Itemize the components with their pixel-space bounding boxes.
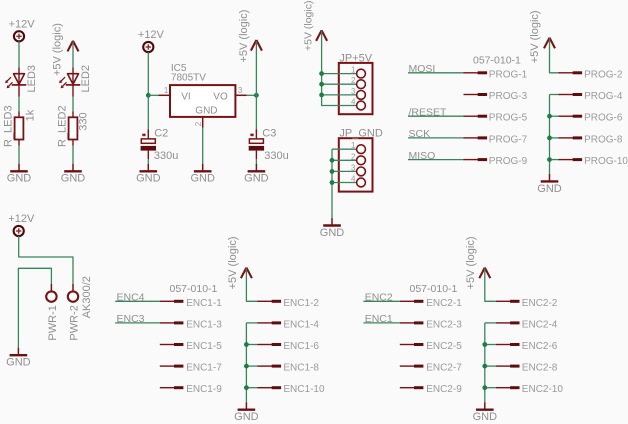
+12V supply symbol P+12V-1 — [9, 18, 36, 41]
ground GND4 — [190, 164, 215, 185]
pin PROG-8 — [559, 137, 583, 139]
wire — [363, 322, 399, 324]
svg-text:PROG-3: PROG-3 — [489, 91, 528, 102]
svg-text:PROG-2: PROG-2 — [584, 69, 623, 80]
ground GND3 — [136, 164, 161, 185]
wire — [332, 182, 357, 184]
pin PROG-7 — [464, 137, 488, 139]
wire — [72, 42, 74, 68]
resistor R_LED2 — [69, 117, 78, 139]
+12V supply symbol P+12V-2 — [138, 29, 165, 52]
pin PWR-1 top — [50, 284, 52, 292]
junction JP+5V pin 1 — [319, 71, 324, 76]
svg-text:+5V (logic): +5V (logic) — [529, 10, 541, 63]
svg-text:+5V (logic): +5V (logic) — [465, 237, 477, 290]
svg-text:JP_GND: JP_GND — [339, 127, 382, 139]
svg-text:GND: GND — [244, 173, 269, 185]
junction PROG gnd bus — [547, 157, 552, 162]
pin ENC1-9 — [160, 387, 184, 389]
+5V supply arrow P+5V ENC1 — [241, 268, 252, 279]
junction ENC2 gnd bus — [482, 342, 487, 347]
svg-text:3: 3 — [238, 86, 243, 95]
pin 4 JP_GND — [357, 178, 366, 187]
wire — [408, 137, 464, 139]
+5V supply arrow P+5V-3 — [316, 30, 327, 41]
svg-text:ENC1-4: ENC1-4 — [283, 319, 319, 330]
junction ENC1 gnd bus — [244, 385, 249, 390]
pin ENC2-2 — [496, 300, 520, 302]
svg-text:PROG-9: PROG-9 — [489, 156, 528, 167]
pin 3 JP_GND — [357, 167, 366, 176]
wire — [246, 268, 257, 301]
pin ENC2-10 — [496, 387, 520, 389]
pin PROG-6 — [559, 115, 583, 117]
wire — [332, 170, 357, 172]
junction JP_GND pin 3 — [330, 169, 335, 174]
pin R_LED3 top — [18, 112, 20, 118]
pin 2 IC5 — [202, 117, 204, 128]
svg-text:LED3: LED3 — [26, 65, 38, 93]
svg-text:GND: GND — [190, 173, 215, 185]
pin LED3 anode — [18, 68, 20, 75]
svg-text:AK300/2: AK300/2 — [81, 276, 93, 318]
svg-text:2: 2 — [194, 121, 203, 126]
svg-text:C3: C3 — [262, 127, 276, 139]
wire — [485, 365, 496, 367]
svg-text:ENC2-9: ENC2-9 — [426, 384, 462, 395]
svg-text:+5V (logic): +5V (logic) — [227, 237, 239, 290]
pin R_LED2 top — [72, 112, 74, 118]
svg-text:R_LED2: R_LED2 — [56, 105, 68, 147]
pin ENC1-5 — [160, 344, 184, 346]
pin ENC2-9 — [400, 387, 424, 389]
wire — [550, 115, 559, 117]
wire — [148, 94, 158, 96]
wire — [332, 148, 357, 150]
capacitor C3 — [249, 134, 264, 151]
svg-text:ENC1-1: ENC1-1 — [186, 298, 222, 309]
wire — [115, 300, 160, 302]
pin PROG-2 — [559, 72, 583, 74]
wire — [246, 387, 257, 389]
pin ENC1-6 — [258, 344, 282, 346]
svg-text:ENC1-10: ENC1-10 — [283, 384, 325, 395]
svg-text:PROG-5: PROG-5 — [489, 113, 528, 124]
LED LED2 — [59, 74, 80, 89]
svg-text:ENC1-9: ENC1-9 — [186, 384, 222, 395]
wire — [255, 159, 257, 164]
pin ENC1-1 — [160, 300, 184, 302]
svg-text:057-010-1: 057-010-1 — [410, 283, 458, 295]
svg-text:+12V: +12V — [8, 213, 35, 225]
capacitor C2 — [141, 134, 156, 151]
svg-text:GND: GND — [537, 183, 562, 195]
wire — [18, 41, 20, 67]
svg-text:ENC1-6: ENC1-6 — [283, 341, 319, 352]
pin 2 JP+5V — [357, 80, 366, 89]
pin PROG-4 — [559, 94, 583, 96]
pin C2 - — [147, 151, 149, 160]
pin ENC1-3 — [160, 322, 184, 324]
wire — [202, 128, 204, 164]
svg-text:4: 4 — [351, 98, 356, 107]
pin ENC2-5 — [400, 344, 424, 346]
ground GND8 — [6, 348, 31, 369]
+5V supply arrow P+5V ENC2 — [479, 268, 490, 279]
pin C3 + — [255, 130, 257, 140]
svg-text:1k: 1k — [25, 109, 37, 121]
svg-text:GND: GND — [136, 173, 161, 185]
svg-text:PWR-2: PWR-2 — [68, 305, 80, 340]
svg-text:7805TV: 7805TV — [171, 73, 206, 84]
svg-text:GND: GND — [195, 105, 217, 116]
junction VOUT — [254, 93, 259, 98]
pin ENC1-7 — [160, 365, 184, 367]
wire — [147, 159, 149, 164]
pin C2 + — [147, 130, 149, 140]
pin 3 IC5 — [235, 94, 246, 96]
connector JP_GND body — [339, 138, 373, 191]
wire — [322, 31, 357, 106]
wire — [408, 159, 464, 161]
pin LED2 cathode — [72, 85, 74, 97]
+5V supply arrow P+5V-2 — [251, 40, 262, 51]
svg-text:+12V: +12V — [9, 18, 36, 30]
svg-text:PROG-8: PROG-8 — [584, 134, 623, 145]
svg-text:+5V (logic): +5V (logic) — [52, 23, 64, 76]
wire — [549, 95, 551, 175]
ground GND5 — [244, 164, 269, 185]
svg-text:ENC2-10: ENC2-10 — [522, 384, 564, 395]
junction JP+5V pin 2 — [319, 82, 324, 87]
wire — [363, 300, 399, 302]
wire — [147, 52, 149, 133]
wire — [485, 322, 496, 324]
wire — [484, 323, 486, 403]
pin ENC2-6 — [496, 344, 520, 346]
wire — [18, 146, 20, 164]
pin 1 JP+5V — [357, 69, 366, 78]
junction VIN — [146, 93, 151, 98]
svg-text:ENC1-7: ENC1-7 — [186, 363, 222, 374]
svg-text:ENC1-3: ENC1-3 — [186, 319, 222, 330]
svg-text:C2: C2 — [154, 127, 168, 139]
ground GND2 — [61, 164, 86, 185]
wire — [246, 322, 257, 324]
pin ENC1-8 — [258, 365, 282, 367]
pin ENC1-10 — [258, 387, 282, 389]
ground GND6 — [320, 218, 345, 239]
svg-text:4: 4 — [351, 175, 356, 184]
junction JP_GND pin 4 — [330, 180, 335, 185]
ground GND1 — [7, 164, 32, 185]
wire — [485, 344, 496, 346]
svg-text:2: 2 — [351, 152, 356, 161]
svg-text:GND: GND — [61, 173, 86, 185]
+5V supply arrow P+5V-1 — [68, 41, 79, 52]
wire — [245, 323, 247, 403]
svg-text:ENC2-5: ENC2-5 — [426, 341, 462, 352]
pin PROG-3 — [464, 94, 488, 96]
svg-text:ENC2-4: ENC2-4 — [522, 319, 558, 330]
ground GND ENC2 — [473, 402, 498, 423]
svg-text:JP+5V: JP+5V — [339, 53, 372, 65]
wire — [19, 236, 73, 284]
svg-text:057-010-1: 057-010-1 — [170, 283, 218, 295]
+5V supply arrow P+5V-4 — [544, 38, 555, 49]
connector pin PWR-2 — [68, 291, 78, 301]
wire — [550, 137, 559, 139]
LED LED3 — [5, 74, 26, 89]
junction ENC2 gnd bus — [482, 364, 487, 369]
wire — [550, 159, 559, 161]
pin C3 - — [255, 151, 257, 160]
wire — [72, 97, 74, 112]
svg-text:330u: 330u — [264, 150, 288, 162]
svg-text:PROG-1: PROG-1 — [489, 69, 528, 80]
pin 1 IC5 — [158, 94, 170, 96]
pin ENC1-2 — [258, 300, 282, 302]
pin R_LED2 bottom — [72, 140, 74, 146]
svg-text:3: 3 — [351, 163, 356, 172]
svg-text:ENC2-6: ENC2-6 — [522, 341, 558, 352]
svg-text:VI: VI — [181, 91, 190, 102]
junction ENC2 gnd bus — [482, 385, 487, 390]
svg-text:+12V: +12V — [138, 29, 165, 41]
svg-text:ENC1-5: ENC1-5 — [186, 341, 222, 352]
wire — [18, 97, 20, 112]
wire — [485, 268, 496, 301]
pin ENC2-8 — [496, 365, 520, 367]
svg-text:PWR-1: PWR-1 — [47, 305, 59, 340]
wire — [246, 344, 257, 346]
pin PROG-5 — [464, 115, 488, 117]
pin LED3 cathode — [18, 85, 20, 97]
ground GND7 — [537, 174, 562, 195]
svg-text:LED2: LED2 — [80, 65, 92, 93]
pin 4 JP+5V — [357, 101, 366, 110]
ground GND ENC1 — [234, 402, 259, 423]
svg-text:057-010-1: 057-010-1 — [473, 54, 521, 66]
svg-text:2: 2 — [351, 76, 356, 85]
connector pin PWR-1 — [46, 291, 56, 301]
svg-text:VO: VO — [213, 91, 228, 102]
junction ENC1 gnd bus — [244, 364, 249, 369]
svg-text:PROG-7: PROG-7 — [489, 134, 528, 145]
wire — [408, 115, 464, 117]
resistor R_LED3 — [15, 117, 24, 139]
svg-text:ENC2-8: ENC2-8 — [522, 363, 558, 374]
pin ENC2-1 — [400, 300, 424, 302]
svg-text:ENC1-2: ENC1-2 — [283, 298, 319, 309]
svg-text:1: 1 — [351, 141, 356, 150]
svg-text:PROG-6: PROG-6 — [584, 113, 623, 124]
wire — [322, 94, 357, 96]
svg-text:GND: GND — [7, 173, 32, 185]
pin 2 JP_GND — [357, 156, 366, 165]
pin PWR-2 top — [72, 284, 74, 292]
junction PROG gnd bus — [547, 136, 552, 141]
wire — [18, 268, 51, 348]
junction ENC1 gnd bus — [244, 342, 249, 347]
svg-text:330u: 330u — [154, 150, 178, 162]
pin LED2 anode — [72, 68, 74, 75]
pin ENC2-7 — [400, 365, 424, 367]
wire — [255, 41, 257, 133]
svg-text:ENC2-2: ENC2-2 — [522, 298, 558, 309]
pin ENC1-4 — [258, 322, 282, 324]
svg-text:1: 1 — [164, 86, 169, 95]
pin ENC2-4 — [496, 322, 520, 324]
pin 1 JP_GND — [357, 145, 366, 154]
junction JP_GND pin 2 — [330, 158, 335, 163]
pin PROG-10 — [559, 159, 583, 161]
wire — [550, 94, 559, 96]
pin ENC2-3 — [400, 322, 424, 324]
svg-text:ENC2-3: ENC2-3 — [426, 319, 462, 330]
svg-text:+5V (logic): +5V (logic) — [303, 1, 315, 51]
wire — [408, 72, 464, 74]
svg-text:ENC1-8: ENC1-8 — [283, 363, 319, 374]
wire — [247, 94, 257, 96]
wire — [550, 39, 559, 73]
svg-text:GND: GND — [320, 227, 345, 239]
svg-text:GND: GND — [473, 411, 498, 423]
wire — [331, 149, 333, 218]
pin R_LED3 bottom — [18, 140, 20, 146]
wire — [72, 146, 74, 164]
svg-text:ENC2-7: ENC2-7 — [426, 363, 462, 374]
wire — [485, 387, 496, 389]
connector JP+5V body — [339, 63, 373, 114]
svg-text:GND: GND — [234, 411, 259, 423]
pin PROG-9 — [464, 159, 488, 161]
pin PROG-1 — [464, 72, 488, 74]
svg-text:GND: GND — [6, 357, 31, 369]
wire — [332, 159, 357, 161]
junction JP+5V pin 3 — [319, 93, 324, 98]
junction PROG gnd bus — [547, 114, 552, 119]
svg-text:+5V (logic): +5V (logic) — [238, 10, 250, 63]
wire — [115, 322, 160, 324]
wire — [246, 365, 257, 367]
+12V supply symbol P+12V-3 — [8, 213, 35, 236]
wire — [322, 83, 357, 85]
svg-text:PROG-10: PROG-10 — [584, 156, 628, 167]
wire — [322, 73, 357, 75]
svg-text:3: 3 — [351, 87, 356, 96]
svg-text:R_LED3: R_LED3 — [2, 105, 14, 147]
op-amp/regulator IC5 7805TV — [170, 85, 235, 117]
pin 3 JP+5V — [357, 91, 366, 100]
svg-text:ENC2-1: ENC2-1 — [426, 298, 462, 309]
svg-text:1: 1 — [351, 66, 356, 75]
svg-text:PROG-4: PROG-4 — [584, 91, 623, 102]
svg-text:330: 330 — [78, 112, 90, 130]
